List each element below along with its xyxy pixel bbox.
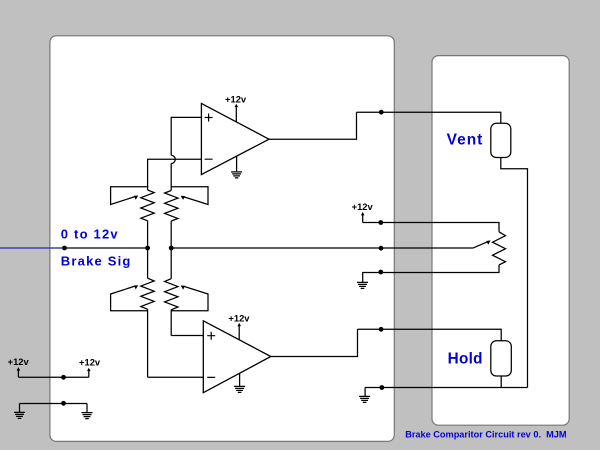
svg-text:Brake Comparitor Circuit rev 0: Brake Comparitor Circuit rev 0. MJM: [405, 429, 567, 439]
svg-text:Hold: Hold: [448, 351, 483, 368]
svg-text:0 to 12v: 0 to 12v: [61, 227, 119, 242]
svg-text:Vent: Vent: [447, 131, 484, 148]
svg-text:+12v: +12v: [8, 356, 30, 367]
svg-text:+12v: +12v: [225, 94, 247, 105]
svg-text:+12v: +12v: [228, 313, 250, 324]
svg-text:+12v: +12v: [79, 357, 101, 368]
svg-text:Brake Sig: Brake Sig: [61, 254, 132, 269]
svg-text:+12v: +12v: [352, 201, 374, 212]
